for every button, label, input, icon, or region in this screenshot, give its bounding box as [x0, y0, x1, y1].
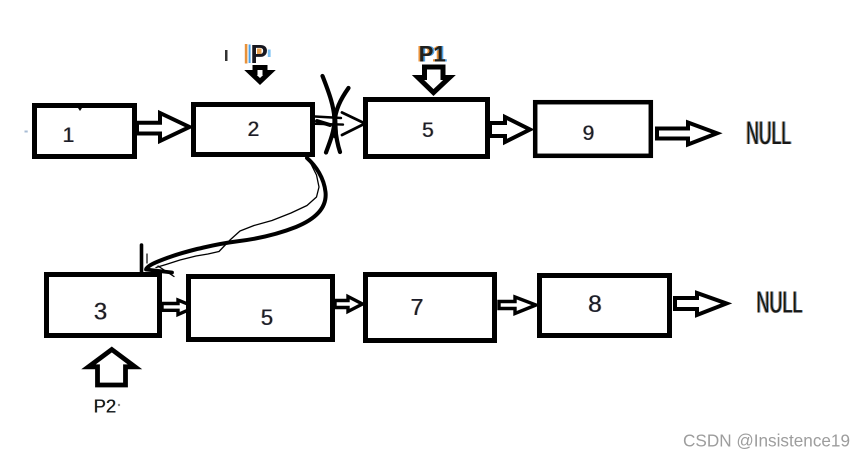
- svg-text:2: 2: [248, 118, 260, 141]
- label 7: [410, 294, 424, 320]
- wire arrow 9 to NULL: [657, 123, 717, 145]
- svg-text:5: 5: [261, 305, 273, 330]
- wire arrow 2 to 5 (broken link): [315, 113, 365, 136]
- wire arrow 1 to 2: [137, 113, 190, 141]
- pointer label P1: [417, 42, 447, 67]
- label 3: [93, 299, 108, 326]
- pointer P down-arrow: [251, 68, 270, 82]
- node box 2: [194, 105, 313, 155]
- svg-text:NULL: NULL: [746, 115, 791, 151]
- svg-text:1: 1: [63, 124, 75, 147]
- node box 1: [35, 106, 135, 157]
- node box 3: [47, 275, 160, 336]
- svg-text:7: 7: [411, 294, 424, 320]
- pointer label P: [245, 39, 271, 69]
- label 5: [422, 119, 435, 142]
- label 5 (bottom): [260, 305, 273, 330]
- label 2: [247, 118, 260, 141]
- pointer P1 down-arrow: [418, 67, 450, 93]
- node box 5 (bottom row): [189, 277, 333, 340]
- NULL terminator (top row): [745, 115, 792, 151]
- svg-text:P: P: [251, 39, 268, 69]
- wire arrow 3 to 5: [162, 300, 195, 315]
- NULL terminator (bottom row): [756, 285, 804, 320]
- svg-text:9: 9: [583, 122, 595, 145]
- svg-text:NULL: NULL: [757, 285, 803, 320]
- node box 9: [535, 102, 651, 156]
- hand-drawn link curve from node 2 to node 3: [142, 158, 326, 277]
- cursor tick: [225, 50, 228, 61]
- svg-text:CSDN @Insistence19: CSDN @Insistence19: [683, 431, 850, 451]
- node box 8: [540, 276, 670, 336]
- svg-text:8: 8: [588, 291, 602, 318]
- label 8: [588, 291, 603, 318]
- svg-text:3: 3: [94, 299, 107, 326]
- label 1: [62, 124, 75, 147]
- node box 7: [366, 275, 495, 341]
- stray blue speck left of box 1: [25, 131, 28, 133]
- svg-text:5: 5: [422, 119, 434, 142]
- wire arrow 7 to 8: [499, 297, 536, 314]
- wire arrow 8 to NULL: [675, 293, 727, 315]
- tick at curve end: [140, 245, 144, 272]
- svg-text:P1: P1: [419, 42, 446, 67]
- label 9: [582, 122, 595, 145]
- svg-text:P2: P2: [94, 396, 117, 417]
- wire arrow 5 to 9: [490, 117, 530, 142]
- stray dot after P2: [118, 404, 120, 406]
- node box 5 (top row): [366, 100, 488, 157]
- pointer P2 up-arrow: [89, 350, 136, 386]
- notch on top of box 1: [76, 105, 84, 111]
- wire arrow 5 to 7: [335, 297, 363, 312]
- pointer label P2: [93, 396, 116, 417]
- scribble X crossing the 2 to 5 link: [317, 76, 349, 153]
